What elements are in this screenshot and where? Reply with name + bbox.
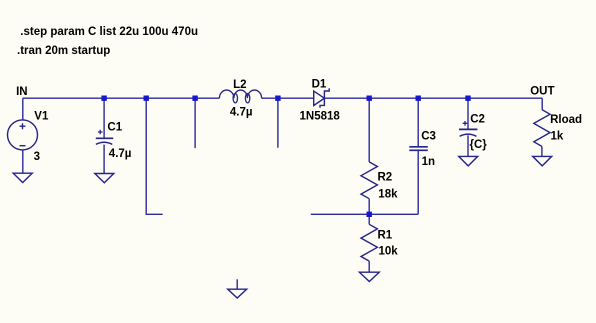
wire R1 top lead	[368, 214, 370, 224]
lone ground bottom center	[228, 289, 247, 298]
ground under V1	[13, 173, 32, 182]
wire dangling stub A	[194, 98, 196, 148]
ground under C1	[95, 174, 114, 183]
svg-text:OUT: OUT	[530, 86, 554, 98]
svg-text:3: 3	[34, 151, 40, 163]
junction node at R2	[367, 96, 372, 101]
resistor R1	[361, 224, 377, 261]
resistor R2	[361, 162, 377, 199]
svg-text:IN: IN	[16, 86, 28, 98]
wire C2 bottom lead	[467, 135, 469, 156]
svg-text:4.7µ: 4.7µ	[230, 107, 253, 119]
wire C3 top lead	[417, 98, 419, 147]
wire R2 top lead	[368, 98, 370, 162]
svg-text:C3: C3	[421, 131, 436, 143]
inductor L2	[219, 90, 261, 103]
svg-text:L2: L2	[233, 79, 246, 91]
wire feedback bottom rail	[311, 213, 418, 215]
svg-text:V1: V1	[34, 110, 49, 122]
junction node at C3	[416, 96, 421, 101]
svg-text:D1: D1	[312, 78, 327, 90]
junction node at R1/R2 divider	[367, 212, 372, 217]
capacitor C3	[409, 147, 428, 151]
svg-text:1k: 1k	[551, 130, 564, 142]
svg-text:R1: R1	[378, 229, 393, 241]
junction node at stub A	[192, 96, 197, 101]
wire C1 top lead	[103, 98, 105, 138]
ground under R1	[359, 272, 379, 281]
capacitor C2 (polarized)	[459, 121, 477, 136]
wire R2 bottom lead	[368, 199, 370, 215]
wire C3 bottom lead	[417, 150, 419, 214]
svg-text:.step param C list 22u 100u 47: .step param C list 22u 100u 470u	[20, 26, 198, 38]
wire between L2 and D1	[262, 97, 314, 99]
wire from D1 to Rload corner	[324, 97, 542, 99]
wire V1 bottom lead	[22, 150, 24, 173]
svg-text:.tran 20m startup: .tran 20m startup	[17, 45, 110, 57]
svg-text:{C}: {C}	[470, 139, 488, 151]
resistor Rload	[534, 110, 550, 147]
svg-text:1n: 1n	[422, 156, 435, 168]
svg-text:1N5818: 1N5818	[300, 110, 341, 122]
wire lone ground stub	[236, 279, 238, 289]
junction node at long vertical	[144, 96, 149, 101]
svg-text:18k: 18k	[378, 189, 398, 201]
capacitor C1 (polarized)	[96, 130, 113, 145]
schottky diode D1	[314, 88, 330, 108]
wire Rload top lead	[541, 98, 543, 109]
wire C2 top lead	[467, 98, 469, 129]
ground under Rload	[533, 156, 552, 166]
wire dangling stub B	[277, 98, 279, 148]
voltage source V1	[8, 120, 38, 150]
ground under C2	[459, 156, 478, 166]
junction node at stub B	[275, 96, 280, 101]
svg-text:C2: C2	[470, 113, 485, 125]
wire main top rail left segment	[23, 97, 220, 99]
junction node at C2	[465, 96, 470, 101]
svg-text:4.7µ: 4.7µ	[109, 148, 132, 160]
wire V1 top lead	[22, 98, 24, 120]
svg-text:R2: R2	[378, 172, 393, 184]
wire C1 bottom lead	[103, 145, 105, 174]
svg-text:Rload: Rload	[550, 114, 582, 126]
svg-text:C1: C1	[107, 122, 122, 134]
wire long vertical with bottom stub	[146, 98, 163, 214]
junction node at C1	[101, 96, 106, 101]
wire R1 bottom lead	[368, 261, 370, 272]
svg-text:10k: 10k	[379, 245, 399, 257]
wire Rload bottom lead	[541, 146, 543, 156]
